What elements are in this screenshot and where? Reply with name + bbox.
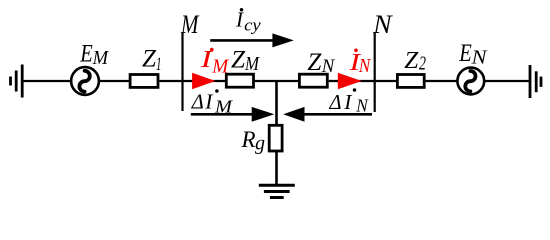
svg-text:M: M: [244, 53, 260, 75]
label dIM (delta I M with dot): [191, 89, 233, 116]
svg-text:I: I: [343, 90, 352, 114]
resistor Z2: [397, 75, 424, 88]
resistor Rg (vertical): [269, 125, 282, 151]
svg-text:Z: Z: [231, 47, 246, 74]
svg-text:Δ: Δ: [329, 90, 342, 114]
svg-text:Z: Z: [307, 49, 322, 76]
ground (right, sideways earth symbol): [530, 65, 541, 98]
node M (bus line): [181, 33, 183, 112]
source EN (AC source circle): [457, 68, 484, 95]
wire: left ground to source EM: [22, 80, 71, 82]
ground (bottom earth symbol): [259, 185, 295, 197]
ground (left, sideways earth symbol): [11, 65, 23, 98]
svg-text:cy: cy: [244, 16, 261, 35]
label EN: [458, 40, 487, 68]
red current arrow IN: [338, 73, 362, 89]
label ZN: [307, 49, 335, 77]
svg-text:M: M: [92, 48, 110, 69]
resistor Z1: [130, 75, 158, 88]
node N (bus line): [374, 33, 376, 112]
resistor ZM: [226, 74, 253, 87]
svg-text:Δ: Δ: [191, 89, 204, 113]
red label IN: [348, 48, 371, 76]
wire: EM to Z1: [99, 80, 130, 82]
svg-text:2: 2: [419, 53, 426, 75]
centre tap wire down to Rg: [275, 81, 278, 125]
wire: Z1 to ZM (through node M): [159, 80, 226, 82]
arrow Icy: [210, 33, 294, 47]
wire: Rg to bottom ground: [275, 151, 278, 185]
arrow dIM: [191, 107, 274, 122]
svg-text:N: N: [355, 96, 368, 116]
svg-text:R: R: [241, 127, 256, 152]
svg-text:1: 1: [156, 54, 162, 75]
svg-text:N: N: [321, 56, 336, 77]
source EM (AC source circle): [71, 67, 99, 95]
label Rg: [241, 127, 266, 155]
label Icy (dot over I): [235, 8, 261, 35]
svg-text:Z: Z: [404, 48, 419, 74]
svg-text:N: N: [372, 10, 393, 39]
label ZM: [231, 47, 260, 76]
wire: ZN to Z2 (through node N): [329, 80, 397, 82]
svg-text:E: E: [458, 40, 471, 67]
label dIN: [329, 88, 369, 115]
svg-text:N: N: [358, 55, 371, 77]
label Z2: [404, 48, 426, 75]
wire: ZM to ZN (through centre tap): [255, 80, 299, 82]
red label IM: [199, 47, 229, 78]
svg-text:N: N: [470, 47, 487, 68]
svg-text:E: E: [79, 41, 92, 68]
label EM: [79, 41, 109, 69]
arrow dIN (points left into centre tap): [283, 107, 372, 122]
svg-text:I: I: [204, 89, 213, 113]
wire: EN to right ground: [484, 80, 530, 82]
svg-text:M: M: [180, 10, 199, 39]
svg-text:g: g: [255, 133, 265, 155]
resistor ZN: [299, 74, 327, 87]
wire: Z2 to EN: [426, 80, 458, 82]
svg-text:Z: Z: [142, 46, 157, 73]
label Z1: [142, 46, 162, 76]
red current arrow IM: [192, 73, 215, 89]
